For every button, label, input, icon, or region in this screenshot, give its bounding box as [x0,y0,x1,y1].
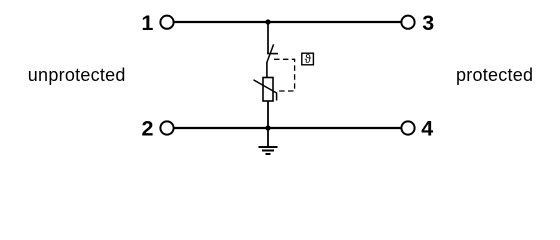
svg-text:ϑ: ϑ [305,54,312,66]
svg-text:2: 2 [142,117,154,141]
svg-text:protected: protected [456,65,533,85]
svg-text:4: 4 [421,117,433,141]
svg-text:3: 3 [422,11,434,35]
svg-text:unprotected: unprotected [28,65,126,85]
svg-text:1: 1 [141,11,153,35]
